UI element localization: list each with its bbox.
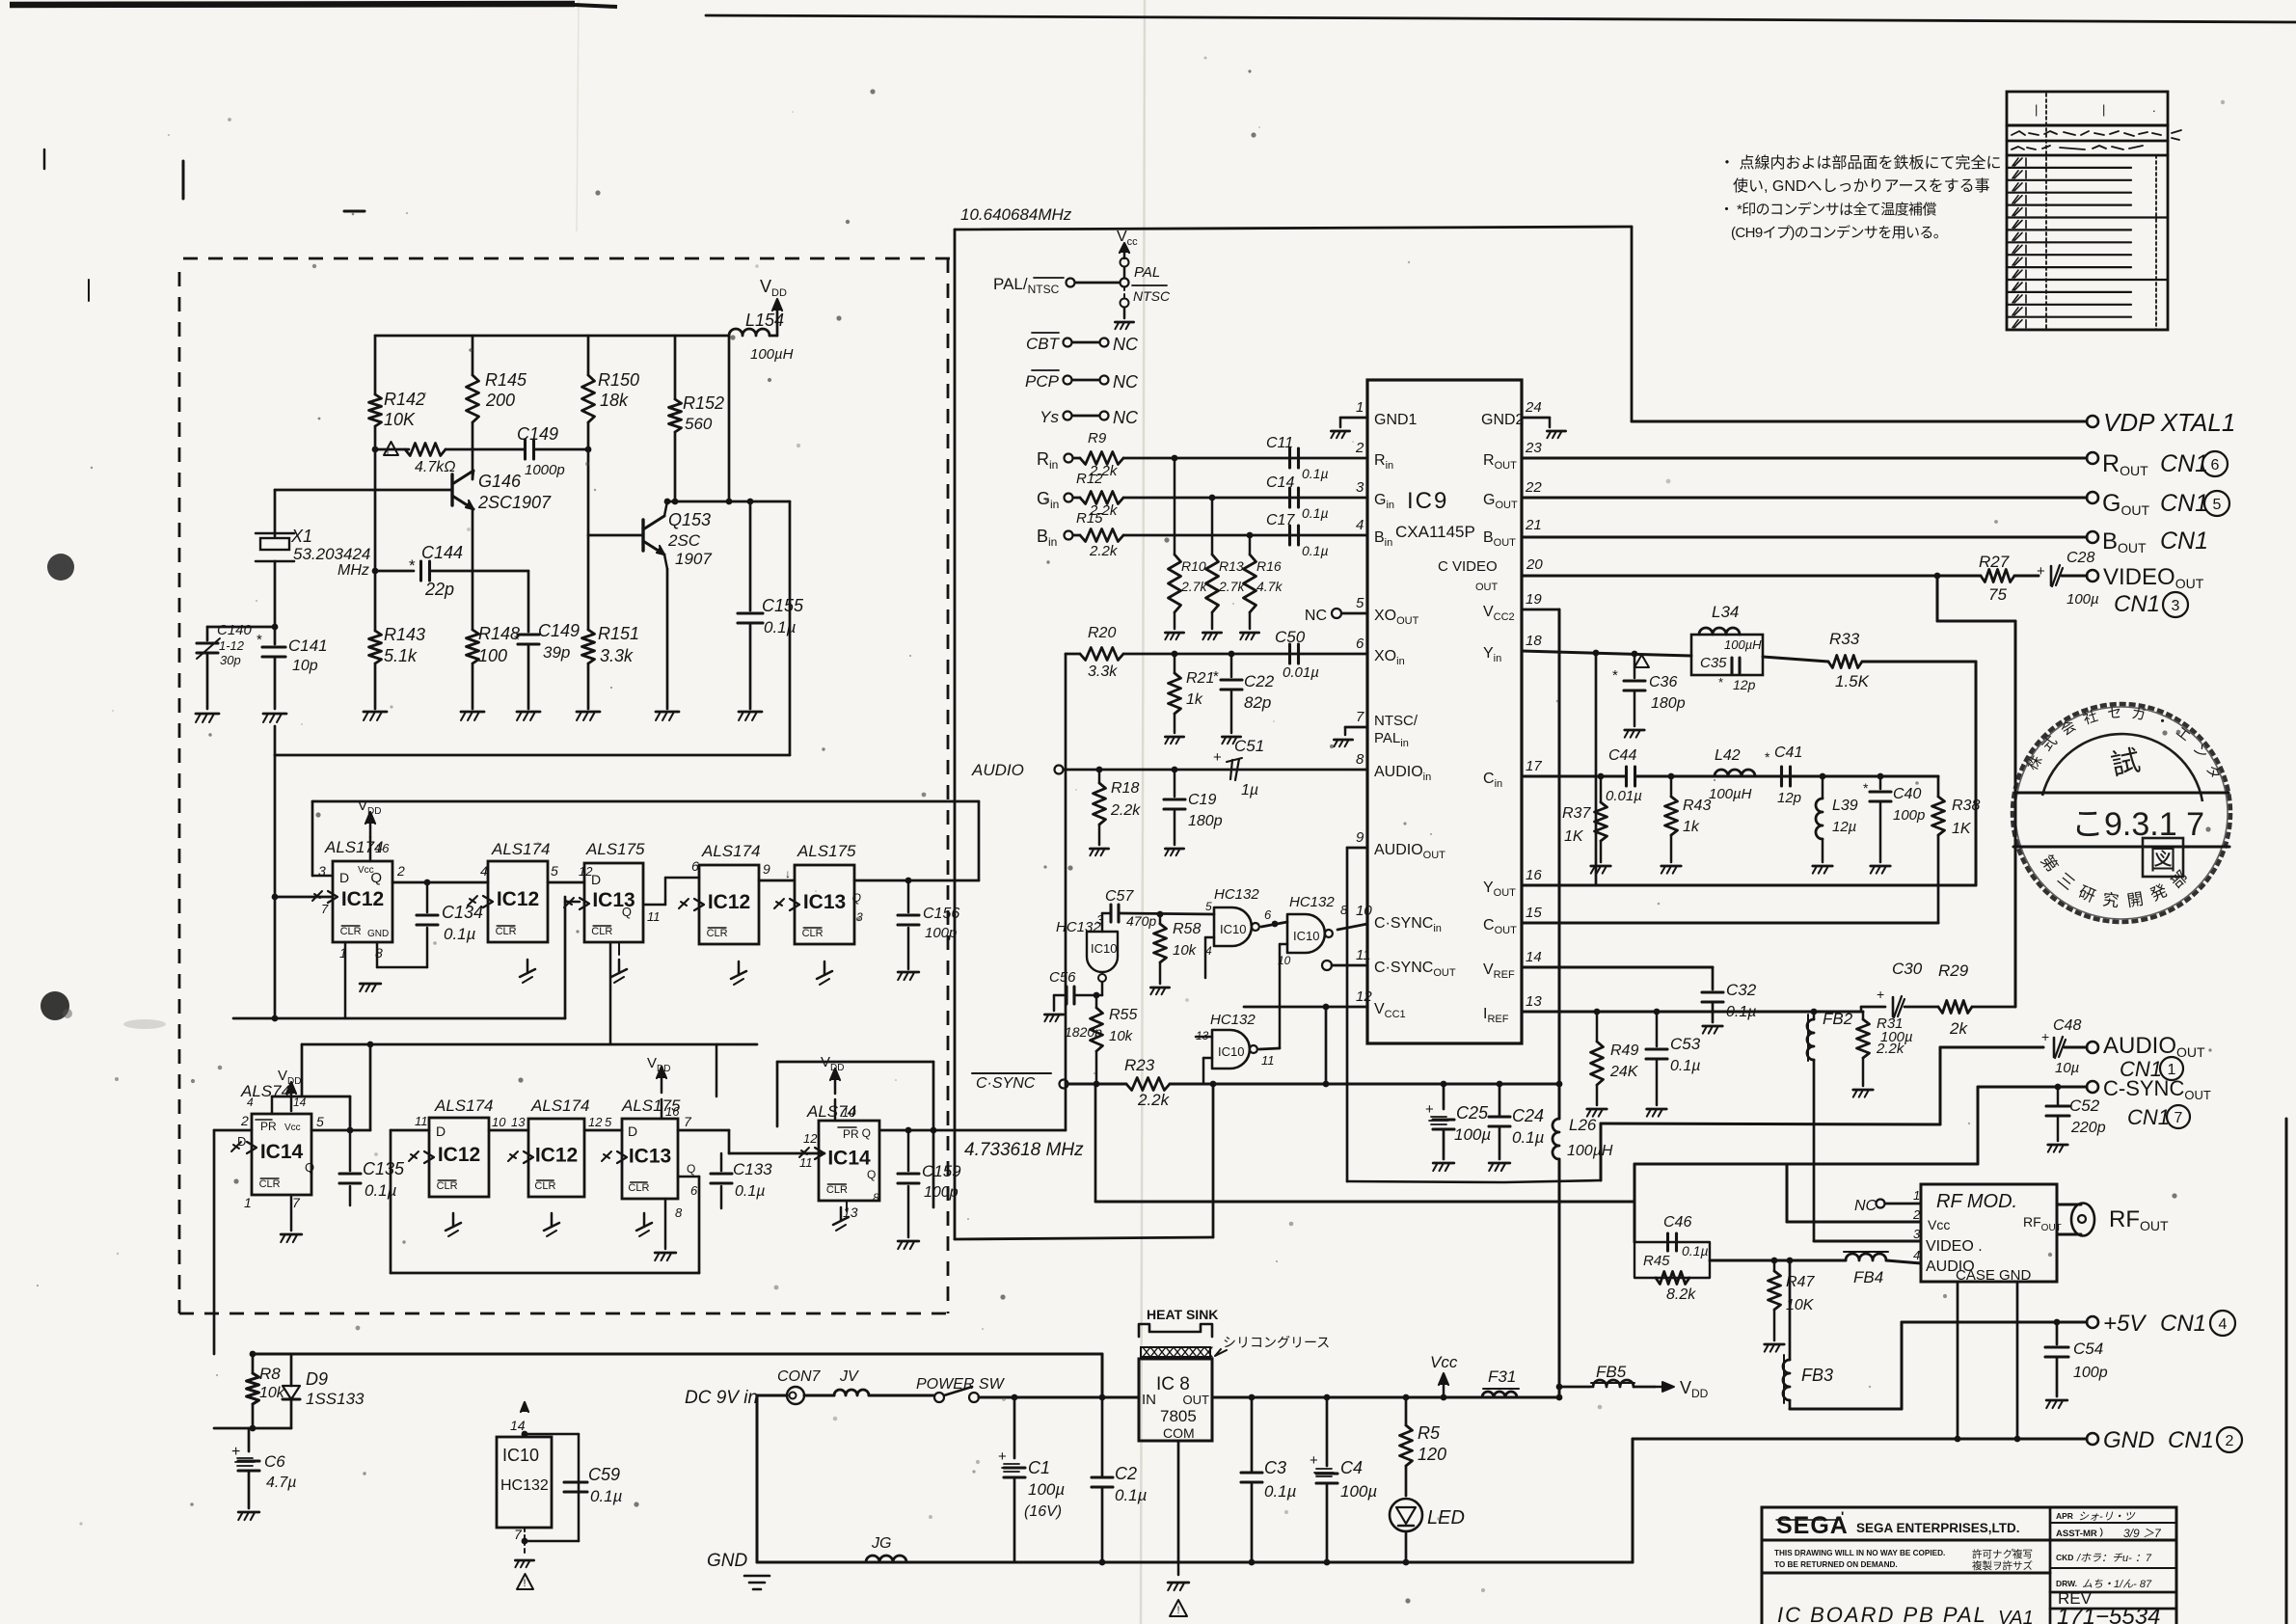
svg-text:R151: R151 <box>598 624 639 643</box>
svg-text:14: 14 <box>1526 949 1542 965</box>
svg-text:CLR: CLR <box>259 1178 281 1190</box>
svg-text:75: 75 <box>1988 585 2007 604</box>
svg-text:120: 120 <box>1418 1445 1446 1464</box>
svg-text:R10: R10 <box>1181 558 1206 574</box>
svg-text:11: 11 <box>1356 947 1371 963</box>
svg-text:8: 8 <box>675 1205 683 1220</box>
svg-text:L34: L34 <box>1712 603 1739 621</box>
svg-text:PAL: PAL <box>1134 264 1160 281</box>
svg-text:TO BE RETURNED ON DEMAND.: TO BE RETURNED ON DEMAND. <box>1774 1560 1898 1569</box>
svg-text:C2: C2 <box>1115 1464 1137 1483</box>
svg-text:ASST-MR ）: ASST-MR ） <box>2056 1528 2109 1539</box>
svg-text:R142: R142 <box>384 390 425 409</box>
svg-text:4: 4 <box>2219 1316 2228 1333</box>
svg-text:+: + <box>1310 1452 1318 1469</box>
svg-text:470p: 470p <box>1126 913 1156 929</box>
svg-text:C41: C41 <box>1774 744 1802 761</box>
svg-text:D: D <box>436 1123 446 1139</box>
svg-text:HEAT SINK: HEAT SINK <box>1147 1307 1218 1322</box>
svg-text:3: 3 <box>1913 1227 1921 1241</box>
svg-text:.: . <box>2152 100 2156 115</box>
svg-text:許可ナク複写: 許可ナク複写 <box>1972 1548 2033 1560</box>
svg-text:L42: L42 <box>1715 747 1741 764</box>
svg-text:10: 10 <box>842 1105 856 1120</box>
svg-text:+: + <box>2041 1029 2049 1044</box>
svg-text:*: * <box>409 556 416 575</box>
svg-text:10.640684MHz: 10.640684MHz <box>960 205 1072 224</box>
svg-text:0.1µ: 0.1µ <box>365 1181 397 1200</box>
svg-text:1-12: 1-12 <box>219 638 245 653</box>
svg-text:C11: C11 <box>1266 435 1293 451</box>
svg-text:100p: 100p <box>924 1184 959 1201</box>
svg-text:12: 12 <box>1356 988 1372 1005</box>
svg-text:GND: GND <box>707 1551 748 1571</box>
svg-text:LED: LED <box>1427 1507 1465 1529</box>
svg-text:2: 2 <box>240 1113 249 1128</box>
svg-text:2: 2 <box>396 863 405 879</box>
svg-text:R27: R27 <box>1979 553 2010 571</box>
svg-text:6: 6 <box>1264 907 1272 922</box>
svg-text:R15: R15 <box>1076 510 1103 527</box>
svg-text:R37: R37 <box>1562 805 1591 822</box>
svg-text:100µ: 100µ <box>1454 1125 1491 1144</box>
svg-text:FB4: FB4 <box>1853 1268 1883 1286</box>
svg-text:CN1: CN1 <box>2160 450 2208 477</box>
svg-text:16: 16 <box>375 841 390 855</box>
svg-text:CBT: CBT <box>1026 335 1061 353</box>
svg-text:1K: 1K <box>1564 828 1584 845</box>
svg-text:+: + <box>1213 749 1222 766</box>
svg-text:12: 12 <box>803 1131 818 1146</box>
svg-text:IC10: IC10 <box>1091 941 1117 956</box>
svg-text:図: 図 <box>2149 845 2176 875</box>
svg-text:G146: G146 <box>478 472 522 491</box>
svg-text:6: 6 <box>2211 457 2220 474</box>
svg-text:100µ: 100µ <box>1028 1480 1065 1499</box>
svg-text:IC12: IC12 <box>535 1145 578 1167</box>
svg-text:8: 8 <box>873 1191 879 1204</box>
svg-text:FB5: FB5 <box>1596 1363 1627 1381</box>
svg-text:OUT: OUT <box>1475 582 1499 593</box>
svg-text:12: 12 <box>588 1115 603 1129</box>
svg-text:NC: NC <box>1113 408 1139 427</box>
svg-text:*: * <box>1213 668 1219 685</box>
svg-text:HC132: HC132 <box>1210 1012 1256 1028</box>
svg-text:7: 7 <box>514 1527 523 1542</box>
svg-text:C14: C14 <box>1266 474 1294 491</box>
svg-text:R43: R43 <box>1683 798 1711 814</box>
svg-text:R152: R152 <box>683 393 724 413</box>
svg-text:(16V): (16V) <box>1024 1503 1062 1520</box>
svg-text:8: 8 <box>1356 751 1364 768</box>
svg-text:R8: R8 <box>259 1365 281 1383</box>
svg-text:X1: X1 <box>290 527 312 546</box>
svg-text:0.1µ: 0.1µ <box>1682 1243 1709 1259</box>
svg-text:3/9 ＞7: 3/9 ＞7 <box>2123 1527 2162 1540</box>
svg-text:3.3k: 3.3k <box>1088 663 1118 680</box>
svg-text:ALS174: ALS174 <box>491 840 551 858</box>
svg-text:5: 5 <box>1356 595 1364 611</box>
svg-text:4.7k: 4.7k <box>1256 579 1283 594</box>
svg-text:セ: セ <box>2107 705 2122 722</box>
svg-text:0.1µ: 0.1µ <box>1302 505 1329 521</box>
svg-text:R18: R18 <box>1111 780 1139 797</box>
svg-text:R150: R150 <box>598 370 639 390</box>
svg-text:R49: R49 <box>1610 1042 1638 1059</box>
svg-text:12p: 12p <box>1777 790 1801 806</box>
svg-text:24: 24 <box>1525 399 1542 416</box>
svg-text:シォ-リ・ツ: シォ-リ・ツ <box>2078 1511 2136 1523</box>
svg-text:16: 16 <box>665 1104 680 1119</box>
svg-text:5: 5 <box>316 1114 324 1129</box>
svg-text:・ *印のコンデンサは全て温度補償: ・ *印のコンデンサは全て温度補償 <box>1719 201 1936 218</box>
svg-text:100: 100 <box>478 646 507 665</box>
svg-text:DC 9V in: DC 9V in <box>685 1388 758 1408</box>
svg-text:*: * <box>1863 780 1869 796</box>
svg-text:HC132: HC132 <box>500 1477 549 1494</box>
svg-text:C40: C40 <box>1893 786 1921 802</box>
svg-text:C28: C28 <box>2066 550 2094 566</box>
svg-text:2: 2 <box>1355 440 1364 456</box>
svg-text:100p: 100p <box>925 925 957 941</box>
svg-text:7: 7 <box>2174 1110 2183 1126</box>
svg-text:シリコングリース: シリコングリース <box>1223 1335 1330 1350</box>
svg-text:IC10: IC10 <box>1293 929 1319 943</box>
svg-text:10k: 10k <box>1173 942 1198 959</box>
svg-text:0.1µ: 0.1µ <box>764 618 797 636</box>
svg-text:ALS174: ALS174 <box>530 1096 590 1115</box>
svg-text:6: 6 <box>1356 636 1364 652</box>
svg-text:GND: GND <box>2103 1427 2154 1453</box>
svg-text:+: + <box>998 1448 1007 1465</box>
svg-text:VDP XTAL1: VDP XTAL1 <box>2103 408 2235 437</box>
svg-text:*: * <box>1718 675 1723 690</box>
svg-text:ALS174: ALS174 <box>701 842 761 860</box>
svg-text:CXA1145P: CXA1145P <box>1395 523 1475 541</box>
svg-text:FB3: FB3 <box>1801 1366 1833 1385</box>
svg-text:!: ! <box>386 447 389 459</box>
svg-text:1: 1 <box>1356 399 1364 416</box>
svg-text:R5: R5 <box>1418 1423 1441 1443</box>
svg-text:0.1µ: 0.1µ <box>1302 466 1329 481</box>
svg-text:Q: Q <box>622 905 632 919</box>
svg-text:+5V: +5V <box>2103 1311 2147 1337</box>
svg-text:R16: R16 <box>1256 558 1282 574</box>
svg-text:MHz: MHz <box>338 562 369 579</box>
svg-text:R9: R9 <box>1088 430 1107 447</box>
svg-text:HC132: HC132 <box>1056 919 1101 935</box>
svg-text:C56: C56 <box>1049 969 1076 986</box>
svg-text:↓: ↓ <box>785 867 791 880</box>
svg-text:C22: C22 <box>1244 672 1275 690</box>
svg-text:C134: C134 <box>442 903 483 922</box>
svg-text:2SC1907: 2SC1907 <box>477 493 552 512</box>
svg-text:CLR: CLR <box>496 926 517 937</box>
svg-text:PCP: PCP <box>1025 372 1060 391</box>
svg-text:15: 15 <box>1526 905 1542 921</box>
svg-text:L154: L154 <box>745 311 784 330</box>
svg-text:NC: NC <box>1113 335 1139 354</box>
svg-text:8.2k: 8.2k <box>1666 1286 1696 1303</box>
svg-text:Q: Q <box>305 1160 314 1175</box>
svg-text:4.7kΩ: 4.7kΩ <box>415 459 455 475</box>
svg-text:ALS174: ALS174 <box>434 1096 494 1115</box>
svg-text:1: 1 <box>244 1195 252 1210</box>
svg-text:R143: R143 <box>384 625 425 644</box>
svg-text:5.1k: 5.1k <box>384 646 418 665</box>
svg-text:R20: R20 <box>1088 625 1116 641</box>
svg-text:ALS175: ALS175 <box>797 842 856 860</box>
svg-text:ALS175: ALS175 <box>585 840 645 858</box>
svg-text:CN1: CN1 <box>2160 528 2208 555</box>
svg-text:IC10: IC10 <box>1218 1044 1244 1059</box>
svg-text:13: 13 <box>1526 993 1542 1010</box>
svg-text:C32: C32 <box>1726 981 1757 999</box>
svg-text:2: 2 <box>2226 1433 2234 1449</box>
svg-text:20: 20 <box>1526 556 1543 573</box>
svg-text:0.1µ: 0.1µ <box>1302 543 1329 558</box>
svg-text:CLR: CLR <box>628 1182 649 1194</box>
svg-text:CLR: CLR <box>534 1180 555 1192</box>
svg-text:3.3k: 3.3k <box>600 646 634 665</box>
svg-text:IN: IN <box>1142 1392 1156 1408</box>
svg-text:NC: NC <box>1113 372 1139 392</box>
svg-text:C135: C135 <box>363 1159 405 1178</box>
svg-text:JG: JG <box>871 1535 891 1552</box>
svg-text:IC13: IC13 <box>803 891 846 913</box>
svg-text:Vcc: Vcc <box>1430 1353 1458 1371</box>
svg-text:ガ: ガ <box>2130 705 2147 723</box>
svg-text:16: 16 <box>1526 867 1542 883</box>
svg-text:24K: 24K <box>1609 1064 1639 1080</box>
svg-text:10k: 10k <box>259 1385 285 1401</box>
svg-text:14: 14 <box>293 1096 307 1109</box>
svg-text:39p: 39p <box>543 643 570 662</box>
svg-text:VA1: VA1 <box>1998 1608 2034 1624</box>
svg-text:180p: 180p <box>1188 813 1223 829</box>
svg-text:5: 5 <box>1205 900 1212 913</box>
svg-text:C54: C54 <box>2073 1340 2103 1358</box>
svg-text:10: 10 <box>1356 903 1372 919</box>
svg-text:D9: D9 <box>306 1369 328 1389</box>
svg-text:JV: JV <box>839 1368 859 1385</box>
svg-text:C48: C48 <box>2053 1017 2081 1034</box>
svg-text:C52: C52 <box>2069 1096 2100 1115</box>
svg-text:・ 点線内およは部品面を鉄板にて完全に: ・ 点線内およは部品面を鉄板にて完全に <box>1719 154 2001 172</box>
svg-text:IC9: IC9 <box>1407 488 1448 514</box>
svg-text:/ホラ：チu- ：7: /ホラ：チu- ：7 <box>2076 1553 2152 1564</box>
svg-text:F31: F31 <box>1488 1367 1516 1386</box>
svg-text:2.7k: 2.7k <box>1218 579 1245 594</box>
svg-text:C4: C4 <box>1340 1458 1363 1477</box>
svg-text:11: 11 <box>799 1155 813 1170</box>
svg-text:IC14: IC14 <box>260 1141 304 1163</box>
svg-text:5: 5 <box>2213 497 2222 513</box>
svg-text:*: * <box>1765 749 1770 765</box>
svg-text:+: + <box>1425 1101 1434 1118</box>
svg-text:CLR: CLR <box>826 1184 848 1196</box>
svg-text:9: 9 <box>763 861 770 877</box>
svg-text:0.1µ: 0.1µ <box>590 1487 623 1505</box>
svg-text:7: 7 <box>1356 709 1364 725</box>
svg-text:0.01µ: 0.01µ <box>1606 788 1642 804</box>
svg-text:SEGA ENTERPRISES,LTD.: SEGA ENTERPRISES,LTD. <box>1856 1521 2020 1535</box>
svg-text:2k: 2k <box>1949 1019 1968 1038</box>
svg-text:13: 13 <box>511 1115 526 1129</box>
svg-text:IC10: IC10 <box>502 1446 539 1465</box>
svg-text:12p: 12p <box>1733 677 1756 692</box>
svg-text:10k: 10k <box>1109 1028 1134 1044</box>
svg-text:Vcc: Vcc <box>284 1123 301 1133</box>
svg-text:23: 23 <box>1525 440 1542 456</box>
svg-text:R33: R33 <box>1829 630 1860 648</box>
svg-text:10K: 10K <box>384 410 416 429</box>
svg-text:D: D <box>591 872 601 887</box>
svg-text:100µ: 100µ <box>2066 591 2099 608</box>
svg-text:AUDIO: AUDIO <box>971 761 1024 779</box>
svg-text:NC: NC <box>1305 608 1327 624</box>
svg-text:SEGA: SEGA <box>1776 1512 1849 1539</box>
svg-text:5: 5 <box>605 1115 612 1129</box>
svg-text:14: 14 <box>510 1418 526 1433</box>
svg-text:COM: COM <box>1163 1425 1195 1441</box>
svg-text:(CH9イプ)のコンデンサを用いる。: (CH9イプ)のコンデンサを用いる。 <box>1731 224 1947 241</box>
svg-text:RF MOD.: RF MOD. <box>1936 1191 2017 1212</box>
svg-text:*: * <box>257 632 262 648</box>
svg-text:C149: C149 <box>517 424 558 444</box>
svg-text:0.1µ: 0.1µ <box>1115 1486 1148 1504</box>
svg-text:0.1µ: 0.1µ <box>1670 1058 1700 1074</box>
svg-text:53.203424: 53.203424 <box>293 545 370 563</box>
svg-text:NTSC: NTSC <box>1133 288 1171 304</box>
svg-text:Vcc: Vcc <box>358 865 374 876</box>
svg-text:NC: NC <box>1854 1198 1877 1214</box>
svg-text:CASE GND: CASE GND <box>1956 1267 2032 1284</box>
svg-text:CN1: CN1 <box>2127 1105 2170 1129</box>
svg-text:171−5534: 171−5534 <box>2057 1604 2160 1624</box>
svg-text:NTSC/: NTSC/ <box>1374 713 1418 729</box>
svg-text:DRW.: DRW. <box>2056 1579 2077 1588</box>
svg-text:0.1µ: 0.1µ <box>735 1183 765 1200</box>
svg-text:2.2k: 2.2k <box>1110 802 1141 819</box>
svg-text:Vcc: Vcc <box>1928 1217 1950 1232</box>
svg-text:CON7: CON7 <box>777 1368 822 1385</box>
svg-text:HC132: HC132 <box>1214 886 1259 903</box>
svg-text:|: | <box>2035 102 2038 117</box>
svg-text:100p: 100p <box>1893 807 1925 824</box>
svg-text:C19: C19 <box>1188 792 1216 808</box>
svg-text:Ys: Ys <box>1040 408 1059 426</box>
svg-text:12µ: 12µ <box>1832 819 1856 835</box>
svg-text:10: 10 <box>492 1115 506 1129</box>
svg-text:2.7k: 2.7k <box>1180 579 1207 594</box>
svg-text:82p: 82p <box>1244 693 1271 712</box>
svg-text:180p: 180p <box>1651 695 1686 712</box>
svg-text:Q153: Q153 <box>668 510 711 529</box>
svg-text:+: + <box>2037 563 2045 580</box>
svg-text:APR: APR <box>2056 1511 2073 1521</box>
svg-text:C17: C17 <box>1266 512 1295 528</box>
svg-text:1000p: 1000p <box>525 462 565 478</box>
svg-text:GND: GND <box>367 929 389 939</box>
svg-text:4: 4 <box>1356 517 1364 533</box>
svg-text:18k: 18k <box>600 391 629 410</box>
svg-text:C46: C46 <box>1663 1214 1691 1231</box>
svg-text:D: D <box>628 1123 637 1139</box>
svg-text:5: 5 <box>551 863 558 879</box>
svg-text:4.733618 MHz: 4.733618 MHz <box>964 1140 1084 1160</box>
svg-text:C3: C3 <box>1264 1458 1286 1477</box>
svg-text:R58: R58 <box>1173 921 1201 937</box>
svg-text:CLR: CLR <box>707 928 728 939</box>
svg-text:IC 8: IC 8 <box>1156 1374 1190 1394</box>
svg-text:Q: Q <box>852 891 861 905</box>
svg-text:Q: Q <box>687 1162 695 1176</box>
svg-text:0.01µ: 0.01µ <box>1283 664 1319 681</box>
svg-text:2.2k: 2.2k <box>1137 1091 1171 1109</box>
svg-text:100µH: 100µH <box>750 346 794 363</box>
svg-text:1k: 1k <box>1683 819 1700 835</box>
svg-text:PR: PR <box>843 1127 859 1141</box>
svg-text:1: 1 <box>1913 1188 1920 1203</box>
svg-text:C35: C35 <box>1700 655 1727 671</box>
svg-text:R145: R145 <box>485 370 527 390</box>
svg-text:CKD: CKD <box>2056 1553 2073 1562</box>
svg-text:開: 開 <box>2125 890 2145 910</box>
svg-text:GND1: GND1 <box>1374 412 1418 428</box>
svg-text:*: * <box>514 632 520 648</box>
svg-text:7: 7 <box>321 902 329 916</box>
svg-text:CLR: CLR <box>437 1180 458 1192</box>
svg-text:2.2k: 2.2k <box>1089 543 1119 559</box>
svg-text:究: 究 <box>2101 890 2120 910</box>
svg-text:4.7µ: 4.7µ <box>266 1475 296 1491</box>
svg-text:C140: C140 <box>217 622 253 638</box>
svg-text:200: 200 <box>485 391 515 410</box>
svg-text:560: 560 <box>685 415 713 433</box>
svg-text:R38: R38 <box>1952 798 1980 814</box>
svg-text:CN1: CN1 <box>2168 1427 2214 1453</box>
svg-text:7: 7 <box>684 1114 692 1129</box>
svg-text:CLR: CLR <box>340 926 362 937</box>
svg-text:19: 19 <box>1526 591 1542 608</box>
svg-text:R23: R23 <box>1124 1056 1155 1074</box>
svg-text:CLR: CLR <box>591 926 612 937</box>
svg-text:22p: 22p <box>424 580 454 599</box>
svg-text:10µ: 10µ <box>2055 1060 2079 1076</box>
svg-text:C133: C133 <box>733 1160 772 1178</box>
svg-text:10p: 10p <box>292 658 318 674</box>
svg-text:C36: C36 <box>1649 674 1677 690</box>
svg-text:': ' <box>1841 1508 1844 1524</box>
svg-text:7805: 7805 <box>1160 1407 1197 1425</box>
svg-text:3: 3 <box>1356 479 1364 496</box>
svg-text:17: 17 <box>1526 758 1542 774</box>
svg-text:IC10: IC10 <box>1220 922 1246 936</box>
svg-text:21: 21 <box>1525 517 1542 533</box>
svg-text:1907: 1907 <box>675 550 712 568</box>
svg-text:1.5K: 1.5K <box>1835 672 1870 690</box>
svg-text:R21: R21 <box>1186 670 1214 687</box>
svg-text:22: 22 <box>1525 479 1542 496</box>
svg-text:100µH: 100µH <box>1567 1143 1613 1159</box>
svg-text:CN1: CN1 <box>2160 490 2208 517</box>
svg-text:C144: C144 <box>421 543 463 562</box>
svg-text:100µ: 100µ <box>1880 1029 1913 1045</box>
svg-text:PR: PR <box>260 1120 277 1133</box>
svg-text:C30: C30 <box>1892 960 1923 978</box>
svg-text:R29: R29 <box>1938 961 1969 980</box>
